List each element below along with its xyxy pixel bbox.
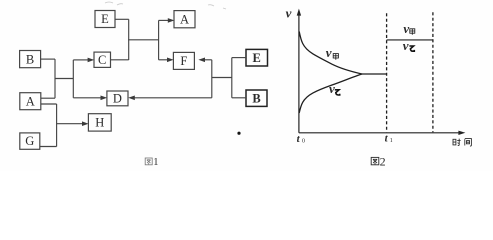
v axis: [298, 12, 300, 133]
box A1 (top right): [174, 11, 195, 28]
wire horizontal to CD junction: [55, 78, 73, 80]
scan speck top-left: [105, 2, 123, 5]
wire A2 lower right: [41, 103, 57, 105]
svg-text:B: B: [26, 52, 34, 66]
wire vertical A2-G junction: [56, 104, 58, 147]
svg-text:2: 2: [380, 154, 386, 168]
wire vertical CD junction: [72, 60, 74, 98]
label v-yi lower between dashes: [403, 38, 415, 53]
svg-text:v: v: [286, 6, 292, 21]
svg-text:E: E: [101, 12, 109, 26]
arrow into D right: [134, 97, 212, 99]
box G: [20, 133, 40, 149]
box A2 (left lower): [20, 93, 41, 110]
upper curve: [299, 32, 362, 75]
wire vertical E1-C junction: [128, 19, 130, 60]
svg-text:A: A: [180, 12, 189, 26]
svg-text:E: E: [253, 51, 261, 65]
svg-text:v: v: [403, 38, 409, 53]
merged velocity line: [362, 73, 387, 75]
svg-text:v: v: [403, 21, 409, 36]
svg-text:v: v: [326, 45, 332, 60]
wire E2 left: [232, 57, 246, 59]
wire horizontal E2B2 connector: [212, 77, 232, 79]
common velocity segment between dashes: [387, 39, 433, 41]
glyph jian: [465, 139, 472, 146]
box B2 (right lower, bold): [246, 90, 267, 106]
svg-text:H: H: [95, 116, 104, 130]
svg-text:A: A: [26, 94, 35, 108]
wire B2 left: [232, 97, 246, 99]
wire mid horizontal to AF junction: [128, 39, 158, 41]
label v-yi on lower curve: [329, 81, 340, 96]
lower curve: [299, 74, 362, 113]
box F: [173, 52, 194, 69]
box B1 (left): [20, 51, 41, 68]
arrow into F left: [159, 59, 168, 61]
scan speck top-mid: [208, 5, 226, 9]
wire A2 upper right: [41, 97, 55, 99]
svg-text:F: F: [180, 54, 187, 68]
box D: [107, 91, 128, 106]
box C: [94, 52, 111, 67]
wire vertical E2B2 junction: [231, 58, 233, 98]
svg-text:v: v: [329, 81, 335, 96]
glyph shi: [453, 139, 456, 145]
svg-text:t: t: [297, 133, 301, 145]
arrow into H: [57, 123, 83, 125]
wire vertical B1-A2 junction: [54, 59, 56, 98]
caption fig2: glyph tu: [371, 157, 379, 164]
wire E1 right: [115, 18, 129, 20]
arrow into F right: [205, 59, 212, 61]
wire vertical AF junction: [158, 20, 160, 59]
svg-text:1: 1: [153, 157, 158, 168]
dashed line right: [432, 12, 434, 132]
svg-text:1: 1: [390, 138, 393, 144]
wire C right: [111, 59, 129, 61]
arrow into A1: [159, 19, 169, 21]
label v-jia on upper curve: [326, 45, 339, 60]
t axis: [299, 132, 459, 134]
box H: [88, 114, 111, 131]
axis label shi-jian (time): [453, 139, 471, 146]
svg-text:G: G: [25, 134, 34, 148]
svg-text:D: D: [113, 92, 122, 106]
caption fig1: glyph tu: [145, 158, 152, 165]
label v-jia upper between dashes: [403, 21, 414, 36]
wire G right: [40, 146, 57, 148]
svg-text:B: B: [252, 91, 260, 105]
arrow into D left: [73, 97, 101, 99]
arrow into C: [73, 59, 88, 61]
ink dot: [237, 132, 240, 135]
box E1 (top): [95, 11, 115, 28]
svg-text:C: C: [98, 53, 106, 67]
svg-text:t: t: [385, 133, 389, 145]
wire vertical right F-D junction: [211, 60, 213, 98]
box E2 (right, bold): [246, 49, 268, 66]
wire B1 right: [41, 58, 55, 60]
dashed line t1: [386, 13, 388, 132]
svg-text:0: 0: [302, 139, 305, 145]
